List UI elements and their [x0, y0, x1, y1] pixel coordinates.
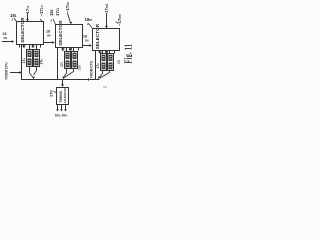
latch pair A2 — [65, 52, 78, 69]
output stubs row U2 — [58, 47, 79, 52]
leader 18-m — [89, 24, 93, 28]
arrowhead U2 top input — [69, 22, 72, 24]
wire CPU join down — [21, 73, 23, 81]
svg-text:17f: 17f — [117, 59, 121, 64]
svg-text:2N: 2N — [85, 39, 89, 43]
svg-text:SELECTOR: SELECTOR — [20, 17, 25, 43]
svg-text:60a·60c: 60a·60c — [55, 114, 68, 118]
svg-text:17d: 17d — [78, 64, 82, 70]
wire from-2H arrow into U2 — [44, 42, 53, 44]
svg-text:182: 182 — [49, 9, 54, 16]
arrowhead U3 top input — [105, 26, 108, 29]
svg-text:1721: 1721 — [55, 7, 60, 16]
leader 18-1 — [14, 18, 17, 22]
arrowhead group2 bus — [62, 77, 65, 80]
svg-text:17c: 17c — [60, 61, 64, 67]
svg-text:17e: 17e — [96, 63, 100, 69]
svg-text:FROM CPU: FROM CPU — [5, 62, 9, 80]
selector U2 box — [56, 25, 83, 48]
arrowheads outputs — [56, 109, 67, 111]
leader 170 — [54, 92, 57, 93]
arrowhead left input U1 — [12, 40, 15, 43]
wire FROM CPU arrow — [10, 72, 20, 74]
arrowhead group1 bus — [32, 77, 35, 80]
selector U1 box — [17, 22, 44, 45]
latch pair A3 — [101, 54, 114, 71]
block 170 timing adjuster — [57, 88, 69, 105]
svg-text:1711: 1711 — [25, 5, 30, 13]
svg-text:~171n: ~171n — [39, 5, 44, 16]
wire bus to 170 — [62, 80, 64, 86]
svg-text:2N: 2N — [4, 36, 8, 40]
svg-text:TIMING: TIMING — [59, 91, 63, 103]
wires pair A2 to bus — [64, 69, 74, 78]
svg-text:ADJUSTER: ADJUSTER — [63, 86, 67, 103]
arrowhead left input U2 — [52, 41, 55, 44]
svg-text:FROM CPU: FROM CPU — [90, 60, 94, 78]
leader 17-mn — [116, 22, 119, 24]
leader 17-1n — [40, 19, 43, 22]
wire from-2H arrow into U1 — [2, 41, 12, 43]
wires pair A1 to bus — [30, 67, 37, 78]
svg-text:170: 170 — [49, 90, 54, 97]
svg-text:2N: 2N — [47, 33, 51, 37]
selector U3 box — [93, 29, 120, 51]
wire input 17-m1 to U3 — [106, 13, 108, 28]
svg-text:~172n: ~172n — [65, 2, 70, 13]
arrowhead U1 top input — [26, 19, 29, 22]
bus wire — [22, 79, 100, 81]
arrowhead from-cpu pointer on bus — [87, 78, 90, 81]
arrowhead left input U3 — [89, 44, 92, 47]
arrowhead group3 bus — [98, 77, 101, 80]
svg-text:17m1: 17m1 — [104, 3, 109, 13]
svg-text:~17mn: ~17mn — [117, 14, 122, 26]
scan smudge — [103, 86, 107, 88]
wire U3 down to bus — [95, 50, 97, 80]
output stubs row U1 — [20, 44, 41, 49]
leader 18-2 — [53, 19, 56, 25]
output stubs row U3 — [96, 50, 115, 54]
latch pair A1 — [27, 50, 40, 67]
wires pair A3 to bus — [100, 71, 110, 79]
wire U2 down to bus — [57, 47, 59, 80]
output wires of 170 — [58, 104, 66, 110]
svg-text:Fig. 11: Fig. 11 — [122, 44, 132, 64]
wire from-2H arrow into U3 — [83, 45, 90, 47]
wire input 17-11 to U1 — [27, 13, 29, 21]
svg-text:17a: 17a — [22, 58, 26, 64]
svg-text:17b: 17b — [40, 59, 44, 65]
arrowhead FROM CPU — [19, 71, 22, 74]
wire input 17-2n to U2 (diagonal) — [68, 13, 71, 23]
svg-text:SELECTOR: SELECTOR — [95, 23, 100, 49]
wire U1 down to bus — [21, 44, 23, 80]
svg-text:SELECTOR: SELECTOR — [58, 20, 63, 46]
arrowhead into 170 — [61, 84, 64, 87]
